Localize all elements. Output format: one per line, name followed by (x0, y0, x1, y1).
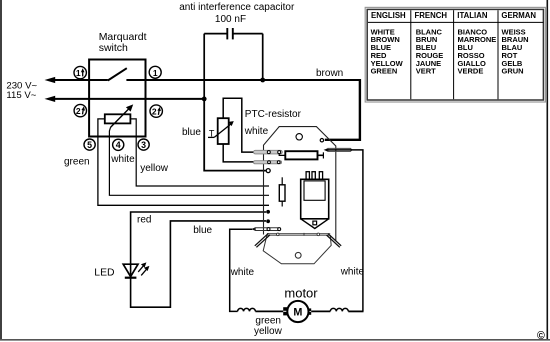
wire red (131, 212, 266, 264)
svg-text:yellow: yellow (254, 326, 283, 337)
PCB mounting hole (296, 134, 302, 140)
svg-text:GREEN: GREEN (371, 67, 398, 76)
wire blue return from LED (131, 221, 266, 307)
wire blue branch down to PCB (204, 99, 266, 171)
svg-text:100 nF: 100 nF (215, 14, 246, 25)
svg-text:GRUN: GRUN (502, 67, 524, 76)
terminal 3 (138, 139, 149, 150)
wire 115V line (45, 96, 205, 102)
svg-text:motor: motor (284, 285, 318, 300)
terminal open circle blue (266, 169, 270, 173)
svg-text:ENGLISH: ENGLISH (371, 11, 406, 20)
svg-text:white: white (110, 154, 135, 165)
svg-text:1: 1 (153, 68, 158, 78)
svg-text:1: 1 (76, 68, 81, 78)
wire PTC bottom (223, 144, 256, 162)
switch lever S1 (108, 68, 127, 80)
terminal 21 right (150, 105, 162, 117)
svg-text:white: white (244, 126, 269, 137)
page border bottom (0, 339, 550, 341)
svg-text:5: 5 (87, 140, 92, 150)
wire capacitor left leg (203, 34, 205, 99)
svg-text:yellow: yellow (140, 163, 169, 174)
resistor R2 on PCB (279, 151, 323, 159)
wire yellow from pot right (130, 119, 269, 186)
svg-text:green: green (64, 156, 90, 167)
page border right (546, 0, 548, 340)
svg-text:GERMAN: GERMAN (501, 11, 536, 20)
svg-text:switch: switch (99, 42, 128, 54)
junction dot blue at PCB (266, 219, 270, 223)
connector pad row1 (254, 150, 283, 154)
svg-text:M: M (293, 307, 302, 319)
terminal 4 (113, 139, 124, 150)
wire PTC top loop (223, 98, 256, 152)
connector pad right (white wire) (324, 148, 352, 152)
Marquardt switch box (89, 60, 145, 137)
wire capacitor right leg (262, 34, 264, 80)
wire green from pot left (98, 119, 269, 205)
svg-text:©: © (537, 330, 545, 342)
svg-text:green: green (255, 316, 281, 327)
svg-text:red: red (137, 214, 151, 225)
junction dot red at PCB (266, 210, 270, 214)
wire brown vertical drop (325, 79, 360, 140)
svg-text:T: T (209, 128, 215, 138)
potentiometer R1 in switch (105, 104, 133, 127)
PCB outline (264, 127, 336, 241)
svg-text:4: 4 (116, 140, 121, 150)
svg-text:white: white (340, 266, 365, 277)
relay K1 on PCB (301, 172, 329, 229)
svg-text:ITALIAN: ITALIAN (457, 11, 488, 20)
connector pad left (white wire) (251, 227, 281, 230)
svg-text:PTC-resistor: PTC-resistor (245, 109, 302, 120)
terminal 11 (74, 66, 86, 78)
inductor L2 right coil (330, 308, 348, 311)
svg-text:blue: blue (193, 225, 212, 236)
LED D1 (123, 262, 149, 277)
wire 230V line right segment (brown) (126, 79, 359, 81)
inductor L1 left coil (238, 308, 256, 311)
terminal 21 left (74, 104, 86, 116)
svg-text:2: 2 (152, 107, 157, 117)
resistor R3 vertical on PCB (279, 177, 285, 206)
terminal 5 (84, 139, 95, 150)
svg-text:white: white (230, 267, 255, 278)
connector pad row2 (254, 161, 282, 164)
color legend table (365, 7, 545, 102)
wire white right riser (326, 150, 363, 312)
wire white from pot wiper (109, 127, 269, 195)
svg-text:VERT: VERT (416, 67, 436, 76)
bracket plate (255, 233, 341, 264)
motor M1 (255, 301, 330, 322)
svg-text:brown: brown (316, 68, 343, 79)
svg-text:115 V~: 115 V~ (6, 90, 36, 101)
terminal 1 (149, 66, 161, 78)
svg-text:VERDE: VERDE (458, 67, 484, 76)
capacitor C1 100nF (204, 28, 263, 39)
junction dot 115V/cap (202, 97, 207, 102)
svg-text:2: 2 (76, 106, 81, 116)
svg-text:3: 3 (141, 140, 146, 150)
svg-text:blue: blue (182, 127, 201, 138)
PTC-resistor RT1 (208, 118, 234, 144)
page border left (0, 0, 2, 340)
svg-text:anti interference capacitor: anti interference capacitor (179, 2, 295, 13)
wire white left riser (230, 229, 252, 311)
svg-text:FRENCH: FRENCH (415, 11, 448, 20)
svg-text:LED: LED (94, 267, 114, 278)
terminal circle brown end (320, 139, 323, 142)
wire 230V line left segment (45, 77, 108, 83)
junction dot 230V/cap (260, 78, 265, 83)
